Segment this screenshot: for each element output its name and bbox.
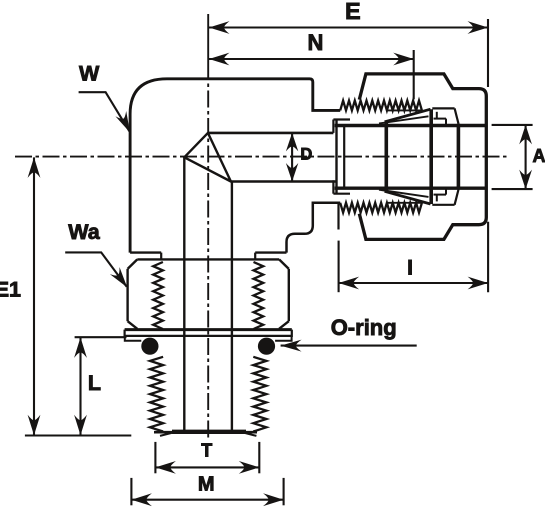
svg-text:M: M xyxy=(198,474,215,496)
svg-text:W: W xyxy=(79,61,100,85)
svg-text:I: I xyxy=(407,256,413,279)
svg-text:T: T xyxy=(201,441,212,461)
svg-text:O-ring: O-ring xyxy=(331,315,397,340)
svg-text:A: A xyxy=(533,146,545,166)
svg-text:E: E xyxy=(345,0,361,24)
svg-text:N: N xyxy=(308,30,324,55)
svg-text:E1: E1 xyxy=(0,277,21,301)
svg-text:Wa: Wa xyxy=(68,220,100,244)
svg-text:D: D xyxy=(300,145,312,163)
svg-text:L: L xyxy=(88,371,101,395)
